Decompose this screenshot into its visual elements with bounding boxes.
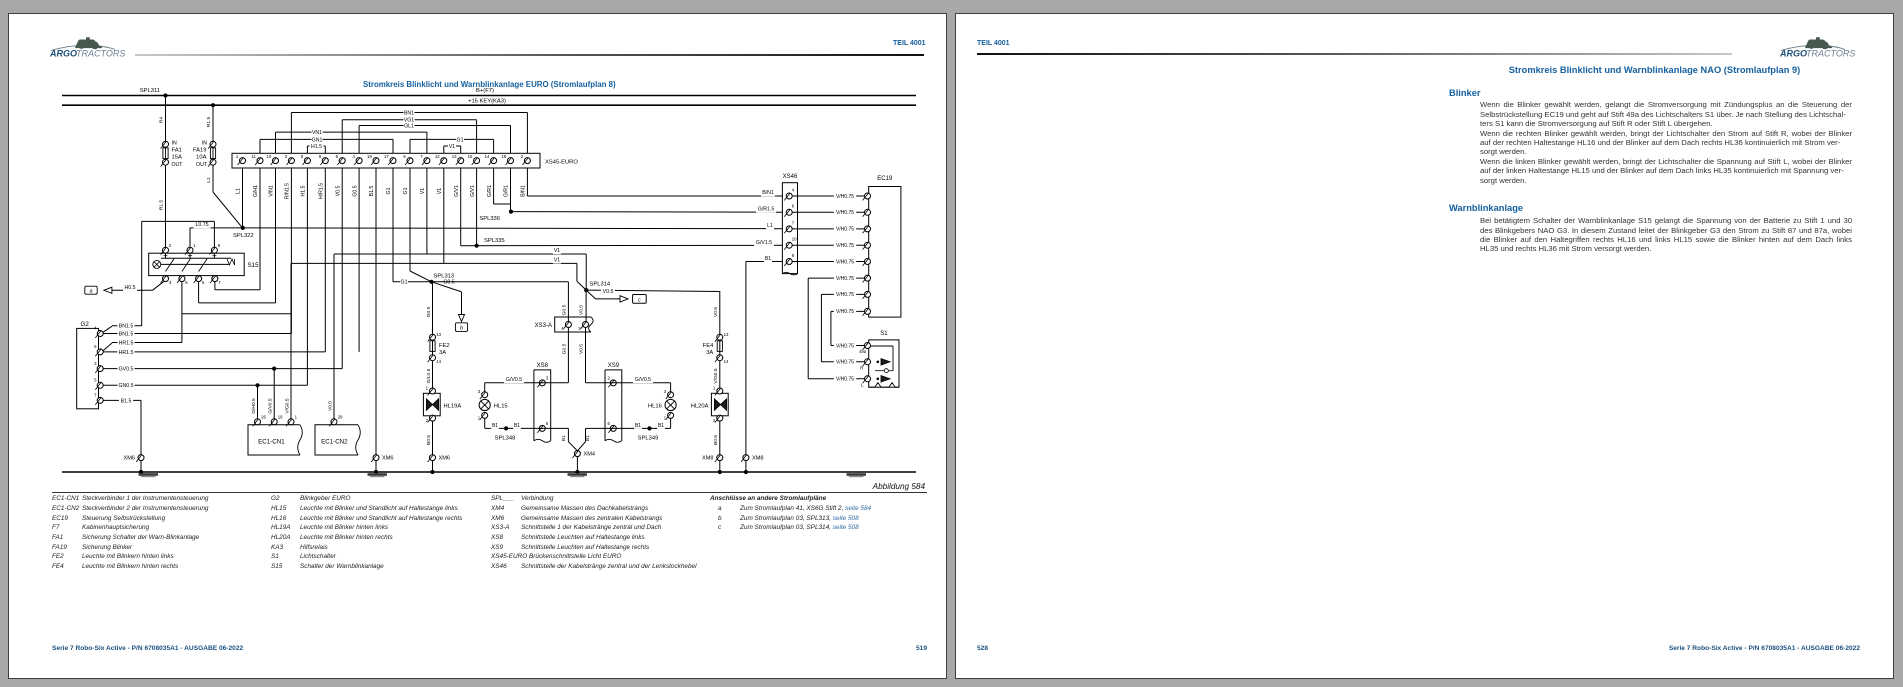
svg-text:G0.5: G0.5 [426, 306, 432, 317]
svg-text:XM6: XM6 [439, 456, 451, 462]
svg-text:V0.5: V0.5 [328, 401, 334, 411]
svg-text:V/H0.75: V/H0.75 [836, 343, 854, 349]
svg-text:G0.5: G0.5 [562, 304, 568, 315]
svg-text:G/V0.5: G/V0.5 [268, 398, 274, 414]
svg-text:G1: G1 [403, 187, 409, 194]
svg-text:3A: 3A [439, 350, 446, 356]
svg-text:6: 6 [94, 344, 97, 349]
svg-text:H1.5: H1.5 [311, 144, 322, 150]
svg-text:G/L0.5: G/L0.5 [426, 368, 432, 383]
svg-text:14: 14 [436, 359, 441, 364]
svg-text:18: 18 [502, 154, 507, 159]
svg-text:SPL349: SPL349 [638, 435, 659, 441]
svg-text:V0.5: V0.5 [579, 305, 585, 315]
svg-text:SPL314: SPL314 [590, 281, 611, 287]
svg-text:XM8: XM8 [752, 456, 764, 462]
svg-text:15: 15 [468, 154, 473, 159]
svg-text:R: R [860, 366, 864, 371]
svg-text:GN0.5: GN0.5 [119, 383, 134, 389]
svg-text:V/H0.75: V/H0.75 [836, 210, 854, 216]
svg-text:2: 2 [169, 243, 172, 248]
svg-text:V/H0.75: V/H0.75 [836, 194, 854, 200]
svg-text:IN: IN [202, 141, 207, 147]
svg-text:B0.5: B0.5 [426, 435, 432, 445]
svg-text:10A: 10A [196, 155, 206, 161]
svg-text:L1: L1 [236, 188, 242, 194]
svg-text:V1: V1 [420, 188, 426, 194]
svg-text:1: 1 [664, 416, 667, 421]
svg-text:6: 6 [185, 280, 188, 285]
svg-text:1: 1 [193, 243, 196, 248]
svg-text:12: 12 [435, 154, 440, 159]
svg-text:H/R1.5: H/R1.5 [319, 183, 325, 199]
svg-text:14: 14 [724, 359, 729, 364]
svg-text:H1.5: H1.5 [301, 185, 307, 196]
svg-text:FE4: FE4 [703, 343, 714, 349]
svg-text:V1: V1 [554, 248, 560, 254]
svg-text:OUT: OUT [172, 162, 184, 168]
svg-text:BN1.5: BN1.5 [119, 324, 134, 330]
svg-text:V/H0.75: V/H0.75 [836, 377, 854, 383]
svg-text:V/H0.75: V/H0.75 [836, 276, 854, 282]
svg-text:GL1: GL1 [404, 123, 414, 129]
svg-text:c: c [638, 297, 641, 303]
svg-text:3: 3 [664, 389, 667, 394]
svg-text:XS3-A: XS3-A [535, 323, 552, 329]
svg-text:G0.5: G0.5 [562, 343, 568, 354]
svg-text:HL16: HL16 [648, 404, 662, 410]
svg-text:G0.5: G0.5 [352, 185, 358, 196]
svg-text:14: 14 [485, 154, 490, 159]
svg-text:XM6: XM6 [123, 456, 135, 462]
svg-text:6: 6 [546, 421, 549, 426]
svg-text:7: 7 [218, 280, 221, 285]
svg-text:26: 26 [261, 414, 266, 419]
svg-text:IN: IN [172, 141, 177, 147]
svg-text:+15 KEY(KA3): +15 KEY(KA3) [468, 99, 506, 105]
svg-text:11: 11 [251, 154, 256, 159]
svg-text:V0.5: V0.5 [603, 289, 614, 295]
svg-text:G0.5: G0.5 [443, 280, 454, 286]
svg-text:3: 3 [546, 375, 549, 380]
svg-text:2: 2 [608, 375, 611, 380]
svg-text:a: a [90, 288, 93, 294]
svg-text:5: 5 [94, 378, 97, 383]
svg-text:10: 10 [792, 237, 797, 242]
svg-text:SPL313: SPL313 [434, 274, 455, 280]
svg-text:XM4: XM4 [584, 452, 596, 458]
svg-text:B1: B1 [561, 435, 567, 441]
svg-text:SPL335: SPL335 [484, 238, 505, 244]
svg-text:SPL322: SPL322 [233, 233, 254, 239]
svg-text:G2: G2 [81, 321, 90, 328]
svg-text:17: 17 [384, 154, 389, 159]
svg-text:EC1-CN1: EC1-CN1 [258, 439, 285, 446]
svg-text:G1: G1 [401, 280, 408, 286]
svg-text:L: L [861, 382, 864, 387]
svg-text:OUT: OUT [196, 162, 208, 168]
svg-text:1: 1 [295, 414, 298, 419]
svg-text:BN1: BN1 [404, 110, 414, 116]
svg-text:B1: B1 [635, 423, 641, 429]
svg-text:HR1.5: HR1.5 [119, 340, 134, 346]
svg-text:G1: G1 [457, 137, 464, 143]
svg-text:XM8: XM8 [702, 456, 714, 462]
svg-text:1: 1 [426, 386, 429, 391]
svg-text:XS45-EURO: XS45-EURO [545, 160, 578, 166]
svg-text:FA19: FA19 [193, 148, 207, 154]
svg-text:G/H1: G/H1 [253, 185, 259, 197]
svg-text:EC1-CN2: EC1-CN2 [321, 439, 348, 446]
svg-text:SPL348: SPL348 [495, 435, 516, 441]
svg-text:V0.5: V0.5 [713, 307, 719, 317]
svg-text:VN1: VN1 [312, 130, 322, 136]
svg-text:R/N1.5: R/N1.5 [285, 183, 291, 199]
svg-text:L0.75: L0.75 [196, 222, 209, 228]
svg-text:V/G0.5: V/G0.5 [713, 368, 719, 384]
svg-text:G/R1: G/R1 [487, 185, 493, 197]
svg-text:1: 1 [478, 416, 481, 421]
svg-text:8: 8 [218, 243, 221, 248]
svg-text:XS9: XS9 [608, 363, 620, 369]
svg-text:V/H0.75: V/H0.75 [836, 227, 854, 233]
svg-text:13: 13 [436, 332, 441, 337]
svg-text:HL15: HL15 [494, 404, 508, 410]
svg-text:B1: B1 [658, 423, 664, 429]
svg-text:b: b [460, 326, 463, 332]
svg-text:2: 2 [713, 418, 716, 423]
svg-text:15A: 15A [172, 155, 182, 161]
svg-text:GV0.5: GV0.5 [119, 367, 134, 373]
svg-text:G/R1.5: G/R1.5 [758, 207, 775, 213]
svg-text:L1: L1 [767, 223, 773, 229]
svg-text:V/H0.75: V/H0.75 [836, 309, 854, 315]
svg-text:HR1.5: HR1.5 [119, 350, 134, 356]
svg-text:B1: B1 [514, 423, 520, 429]
svg-text:R1.5: R1.5 [206, 117, 212, 128]
svg-text:10: 10 [267, 154, 272, 159]
svg-text:BN1.5: BN1.5 [119, 331, 134, 337]
svg-text:G/V1: G/V1 [470, 185, 476, 197]
svg-text:G/V0.5: G/V0.5 [506, 377, 522, 383]
svg-text:SPL311: SPL311 [140, 88, 160, 94]
svg-text:13: 13 [452, 154, 457, 159]
svg-text:XM6: XM6 [382, 456, 394, 462]
svg-text:B0.5: B0.5 [713, 435, 719, 445]
svg-text:L1: L1 [206, 177, 212, 183]
svg-text:V1: V1 [554, 257, 560, 263]
svg-text:B1.5: B1.5 [121, 398, 132, 404]
svg-text:2: 2 [426, 418, 429, 423]
svg-text:1: 1 [713, 386, 716, 391]
svg-text:HL20A: HL20A [691, 404, 709, 410]
svg-text:S1: S1 [880, 331, 888, 337]
svg-text:EC19: EC19 [877, 176, 893, 182]
svg-text:V/H0.75: V/H0.75 [836, 259, 854, 265]
svg-text:3: 3 [478, 389, 481, 394]
svg-text:7: 7 [94, 393, 97, 398]
svg-text:FA1: FA1 [172, 148, 182, 154]
svg-text:5: 5 [202, 280, 205, 285]
svg-text:V/N1: V/N1 [269, 185, 275, 197]
svg-text:R1.5: R1.5 [158, 200, 164, 211]
svg-text:3: 3 [169, 280, 172, 285]
svg-text:G/V1.5: G/V1.5 [756, 240, 772, 246]
svg-text:V/H0.75: V/H0.75 [836, 243, 854, 249]
svg-text:B1: B1 [765, 256, 771, 262]
svg-text:V/G0.5: V/G0.5 [285, 398, 291, 414]
svg-text:B1: B1 [492, 423, 498, 429]
svg-text:GN1: GN1 [312, 137, 323, 143]
svg-text:SPL336: SPL336 [479, 216, 500, 222]
svg-text:B+(F7): B+(F7) [476, 88, 494, 94]
svg-text:S15: S15 [248, 262, 260, 269]
svg-text:V1: V1 [437, 188, 443, 194]
svg-text:R4: R4 [158, 117, 164, 124]
svg-text:G/V0.5: G/V0.5 [635, 377, 651, 383]
svg-text:V0.5: V0.5 [579, 344, 585, 354]
svg-text:13: 13 [724, 332, 729, 337]
svg-text:FE2: FE2 [439, 343, 450, 349]
svg-text:V0.5: V0.5 [335, 186, 341, 197]
svg-text:XS8: XS8 [537, 363, 549, 369]
svg-text:3: 3 [94, 361, 97, 366]
svg-text:G/R1: G/R1 [504, 185, 510, 197]
svg-text:V1: V1 [449, 144, 455, 150]
svg-text:B1.5: B1.5 [369, 186, 375, 197]
svg-text:6: 6 [608, 421, 611, 426]
svg-text:19: 19 [278, 414, 283, 419]
svg-text:H0.5: H0.5 [125, 285, 136, 291]
svg-text:B/N1: B/N1 [762, 190, 774, 196]
svg-text:G/H0.5: G/H0.5 [251, 398, 257, 414]
svg-text:V/H0.75: V/H0.75 [836, 360, 854, 366]
svg-text:B1: B1 [585, 435, 591, 441]
svg-text:19: 19 [367, 154, 372, 159]
svg-text:49a: 49a [859, 349, 867, 354]
svg-text:3A: 3A [706, 350, 713, 356]
svg-text:G/V1: G/V1 [454, 185, 460, 197]
svg-text:B/N1: B/N1 [521, 185, 527, 197]
svg-text:XS46: XS46 [783, 174, 798, 180]
svg-text:G1: G1 [386, 187, 392, 194]
svg-text:V/H0.75: V/H0.75 [836, 292, 854, 298]
svg-text:29: 29 [338, 414, 343, 419]
svg-text:HL19A: HL19A [444, 404, 462, 410]
